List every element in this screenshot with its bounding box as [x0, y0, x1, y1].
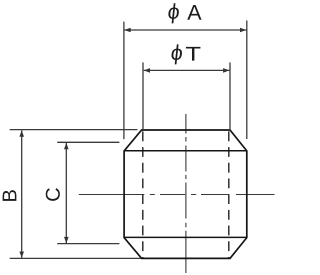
- dim phiT extension left: [142, 62, 144, 129]
- dim phiA line: [124, 29, 246, 31]
- dim C line: [65, 143, 67, 243]
- hidden line left: [142, 131, 144, 258]
- dim C extension bottom: [57, 243, 119, 245]
- dim B arrow bottom: [19, 251, 24, 257]
- chamfer line top: [124, 150, 247, 152]
- dim phiT arrow left: [144, 68, 150, 73]
- label phiA phi: [167, 3, 179, 23]
- hidden line right: [228, 131, 230, 258]
- dim phiA arrow right: [240, 28, 246, 33]
- dim B line: [21, 130, 23, 257]
- dim phiT extension right: [229, 62, 231, 129]
- chamfer line bottom: [124, 236, 247, 238]
- centerline vertical: [185, 114, 187, 273]
- dim C arrow top: [64, 143, 69, 149]
- label phiT T: [186, 47, 200, 61]
- dim phiT line: [144, 69, 230, 71]
- dim phiA extension left: [123, 22, 125, 140]
- label B: [3, 190, 17, 201]
- centerline horizontal: [79, 194, 275, 196]
- dim C arrow bottom: [64, 237, 69, 243]
- dim phiA extension right: [246, 21, 248, 140]
- dim C extension top: [57, 141, 119, 143]
- label phiA A: [187, 5, 201, 20]
- dim B arrow top: [19, 130, 24, 136]
- dim B extension bottom: [10, 257, 141, 259]
- dim B extension top: [10, 129, 138, 131]
- dim phiT arrow right: [223, 68, 229, 73]
- label phiT phi: [170, 44, 182, 64]
- dim phiA arrow left: [124, 28, 130, 33]
- body outline octagon: [124, 130, 247, 258]
- label C: [46, 188, 60, 201]
